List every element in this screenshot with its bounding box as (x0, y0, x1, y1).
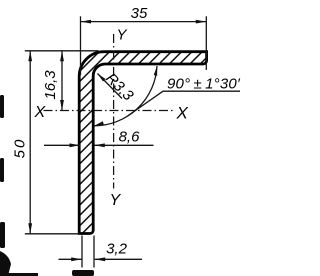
90 arc arrow left (94, 121, 104, 126)
scan edge artifacts (0, 95, 94, 276)
dim line 50 (29, 51, 31, 234)
top ext line (25, 50, 99, 52)
svg-text:X: X (34, 104, 47, 121)
svg-text:50: 50 (12, 138, 29, 159)
dim 50 arrows (28, 51, 32, 62)
dim 3,2 arrows (71, 257, 82, 261)
ext 3,2 left (81, 236, 83, 268)
axis X (44, 110, 173, 112)
dim 8,6 right shelf (94, 144, 153, 146)
dim 35 arrows (81, 20, 92, 24)
ext line 35 right (205, 16, 207, 70)
dim 3,2 left (59, 258, 82, 260)
dim 16,3 arrows (60, 51, 64, 62)
ext line 35 left (80, 16, 82, 75)
R3,3 leader arrow (98, 74, 106, 82)
angle profile outline (79, 52, 206, 234)
dim 3,2 right shelf (95, 258, 142, 260)
90 deg arc (94, 66, 157, 126)
svg-text:Y: Y (110, 192, 122, 209)
axis Y (113, 34, 115, 189)
dim 8,6 arrows (70, 143, 81, 147)
svg-text:35: 35 (131, 5, 148, 22)
arrowheads (28, 20, 206, 261)
ext 3,2 right (93, 236, 95, 268)
svg-text:8,6: 8,6 (119, 129, 141, 146)
svg-text:X: X (176, 104, 189, 123)
90 deg text leader (128, 91, 240, 116)
svg-text:16,3: 16,3 (42, 70, 59, 100)
bottom ext line (25, 233, 80, 235)
svg-text:3,2: 3,2 (106, 241, 128, 258)
leader R3,3 (98, 74, 123, 99)
thin lines (25, 16, 240, 267)
90 arc arrow top (154, 66, 158, 76)
dim 8,6 left (44, 144, 80, 146)
dim line 35 (81, 21, 207, 23)
hatching of section (0, 30, 286, 276)
svg-text:90° ± 1°30′: 90° ± 1°30′ (167, 76, 241, 93)
svg-text:Y: Y (117, 27, 128, 44)
dim line 16,3 (61, 51, 63, 111)
